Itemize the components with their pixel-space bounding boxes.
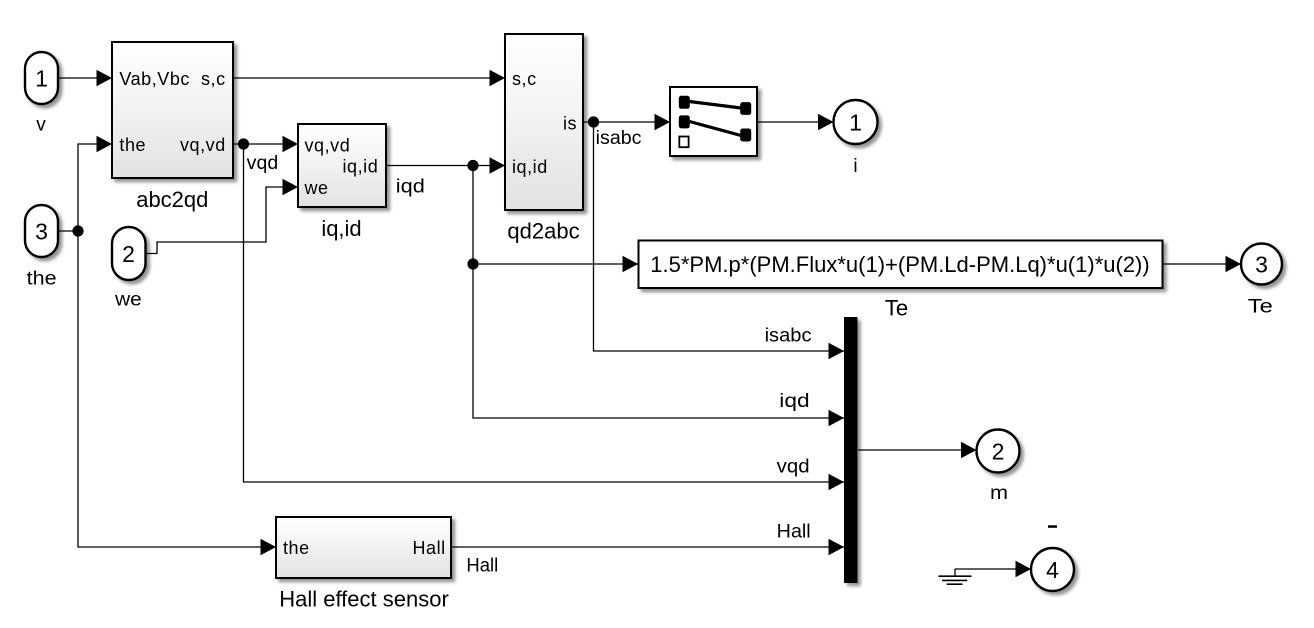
svg-text:m: m	[990, 483, 1008, 504]
svg-text:2: 2	[992, 438, 1005, 464]
svg-text:3: 3	[35, 218, 48, 244]
svg-text:Hall: Hall	[466, 555, 498, 576]
svg-text:vq,vd: vq,vd	[180, 135, 226, 155]
svg-text:1: 1	[35, 65, 48, 91]
svg-text:1.5*PM.p*(PM.Flux*u(1)+(PM.Ld-: 1.5*PM.p*(PM.Flux*u(1)+(PM.Ld-PM.Lq)*u(1…	[650, 252, 1149, 277]
svg-text:we: we	[114, 290, 142, 311]
svg-text:s,c: s,c	[201, 69, 226, 89]
svg-text:the: the	[119, 135, 146, 155]
svg-text:Vab,Vbc: Vab,Vbc	[119, 69, 190, 89]
svg-text:Te: Te	[885, 296, 908, 321]
svg-text:isabc: isabc	[596, 128, 642, 149]
svg-text:qd2abc: qd2abc	[507, 218, 579, 243]
svg-text:iqd: iqd	[396, 176, 425, 197]
svg-text:is: is	[563, 114, 577, 134]
svg-text:s,c: s,c	[512, 69, 537, 89]
svg-text:abc2qd: abc2qd	[136, 187, 208, 212]
svg-text:we: we	[304, 178, 329, 198]
svg-text:the: the	[283, 538, 310, 558]
svg-text:1: 1	[849, 109, 862, 135]
svg-text:vqd: vqd	[247, 153, 279, 174]
svg-text:vqd: vqd	[777, 456, 810, 477]
svg-text:2: 2	[122, 241, 135, 267]
svg-text:vq,vd: vq,vd	[305, 136, 351, 156]
svg-text:iq,id: iq,id	[343, 157, 379, 177]
svg-text:iq,id: iq,id	[321, 216, 361, 241]
svg-text:i: i	[853, 156, 857, 177]
svg-text:Te: Te	[1248, 296, 1273, 317]
svg-text:4: 4	[1046, 557, 1059, 583]
svg-text:isabc: isabc	[765, 326, 812, 347]
svg-text:Hall: Hall	[777, 522, 811, 543]
svg-text:Hall effect sensor: Hall effect sensor	[279, 586, 449, 611]
svg-text:the: the	[27, 269, 57, 290]
svg-text:Hall: Hall	[413, 538, 446, 558]
svg-text:v: v	[36, 115, 46, 136]
svg-text:iqd: iqd	[779, 391, 809, 412]
svg-text:iq,id: iq,id	[512, 157, 548, 177]
svg-text:3: 3	[1255, 251, 1268, 277]
